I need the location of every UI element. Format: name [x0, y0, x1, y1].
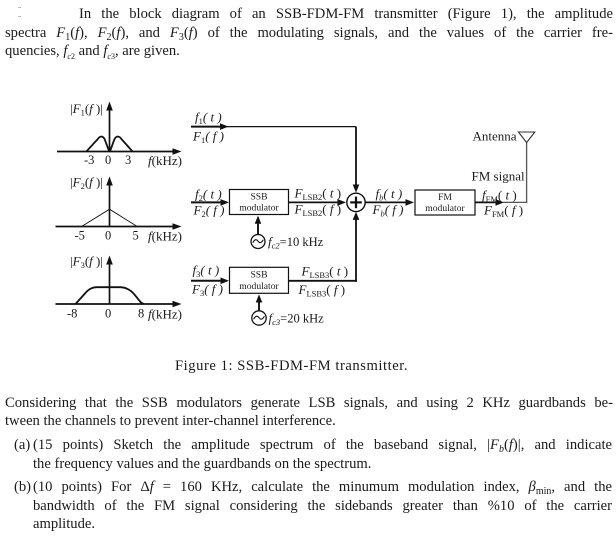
- svg-text:F1( f ): F1( f ): [192, 129, 224, 146]
- wire f2 input arrow: [191, 199, 229, 206]
- wire f1 horizontal to corner: [226, 126, 356, 128]
- wire f3 input arrow: [191, 278, 229, 285]
- svg-text:-8: -8: [67, 307, 77, 321]
- svg-text:SSB: SSB: [250, 270, 267, 281]
- svg-text:FLSB2( f ): FLSB2( f ): [294, 202, 342, 219]
- svg-text:f2( t ): f2( t ): [195, 186, 222, 203]
- wire oscillator fc2 to SSB1: [255, 216, 262, 235]
- svg-text:f3( t ): f3( t ): [193, 263, 220, 280]
- svg-text:modulator: modulator: [239, 281, 279, 292]
- faint scan artifact dots top-left: [18, 7, 21, 9]
- wire f1 vertical into summer: [353, 127, 360, 193]
- spectrum 1 curve |F1(f)| double-hump: [87, 137, 133, 152]
- spectrum plot 2 y-axis: [106, 177, 113, 228]
- svg-text:FFM( f ): FFM( f ): [483, 203, 523, 220]
- svg-text:-5: -5: [75, 229, 85, 243]
- svg-text:f(kHz): f(kHz): [148, 229, 182, 244]
- svg-text:3: 3: [125, 153, 131, 167]
- wire f1 input arrow: [191, 123, 229, 130]
- svg-text:FLSB3( t ): FLSB3( t ): [301, 264, 349, 281]
- svg-text:modulator: modulator: [239, 203, 279, 214]
- svg-text:|F3(f )|: |F3(f )|: [70, 254, 103, 271]
- wire summer output to FM modulator: [365, 199, 414, 206]
- svg-text:8: 8: [138, 307, 144, 321]
- spectrum plot 1 y-axis: [106, 102, 113, 153]
- item (a) label: [14, 436, 30, 455]
- svg-text:f(kHz): f(kHz): [148, 153, 182, 168]
- svg-text:0: 0: [105, 307, 111, 321]
- svg-text:5: 5: [133, 229, 139, 243]
- SSB modulator 2 block: [230, 267, 289, 293]
- svg-text:FLSB3( f ): FLSB3( f ): [298, 282, 346, 299]
- SSB modulator 1 block: [230, 190, 289, 215]
- svg-text:F2( f ): F2( f ): [193, 202, 225, 219]
- spectrum plot 3 x-axis: [56, 301, 182, 308]
- svg-text:f(kHz): f(kHz): [148, 307, 182, 322]
- svg-text:Fb( f ): Fb( f ): [372, 202, 404, 219]
- spectrum 3 trapezoid curve: [76, 287, 144, 304]
- svg-text:FLSB2( t ): FLSB2( t ): [294, 186, 342, 203]
- svg-text:f1( t ): f1( t ): [195, 110, 222, 127]
- svg-text:SSB: SSB: [250, 192, 267, 203]
- antenna symbol: [518, 132, 534, 143]
- spectrum plot 1 x-axis: [57, 148, 182, 155]
- svg-text:0: 0: [105, 153, 111, 167]
- spectrum plot 2 x-axis: [56, 223, 182, 230]
- wire FM output to antenna corner: [503, 201, 527, 203]
- item (b) label: [14, 478, 31, 497]
- wire FM output arrow: [475, 199, 504, 206]
- wire antenna vertical: [526, 143, 528, 204]
- svg-text:FM: FM: [438, 192, 452, 203]
- item (a) body: [33, 436, 612, 473]
- opening paragraph: [5, 5, 613, 61]
- svg-text:FM signal: FM signal: [472, 169, 525, 184]
- svg-text:fb( t ): fb( t ): [376, 186, 403, 203]
- svg-text:fc3=20 kHz: fc3=20 kHz: [269, 311, 325, 328]
- svg-text:0: 0: [105, 229, 111, 243]
- svg-text:modulator: modulator: [425, 203, 465, 214]
- oscillator fc3: [252, 311, 266, 325]
- svg-text:-3: -3: [84, 153, 94, 167]
- svg-text:|F2(f )|: |F2(f )|: [70, 175, 103, 192]
- svg-text:fc2=10 kHz: fc2=10 kHz: [268, 234, 324, 251]
- closing paragraph: [5, 394, 613, 431]
- svg-text:|F1(f )|: |F1(f )|: [70, 101, 103, 118]
- svg-text:F3( f ): F3( f ): [191, 282, 223, 299]
- FM modulator block: [415, 190, 475, 215]
- oscillator fc2: [251, 235, 265, 249]
- spectrum plot 1 axis label |F1(f)|: [70, 101, 103, 118]
- item (b) body: [33, 478, 612, 534]
- wire SSB2 output vertical into summer: [353, 212, 360, 282]
- figure caption: [175, 358, 408, 375]
- spectrum 2 triangle curve: [82, 209, 137, 226]
- wire SSB2 output horizontal: [289, 280, 357, 282]
- wire SSB1 output to summer: [289, 199, 347, 206]
- summing junction: [347, 193, 365, 211]
- wire oscillator fc3 to SSB2: [256, 294, 263, 310]
- svg-text:Antenna: Antenna: [473, 129, 517, 144]
- spectrum plot 3 y-axis: [106, 256, 113, 305]
